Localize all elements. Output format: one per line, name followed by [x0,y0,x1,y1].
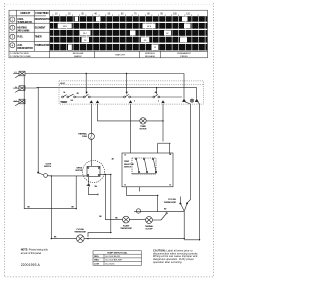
svg-text:18 B: 18 B [63,26,68,28]
svg-text:240 V. MAIN: 240 V. MAIN [17,29,29,32]
svg-text:MED.: MED. [94,260,99,262]
svg-text:SWITCH: SWITCH [124,167,132,169]
svg-text:TIMER: TIMER [35,35,42,38]
svg-text:SWITCH: SWITCH [44,166,52,168]
svg-text:operation after servicing.: operation after servicing. [153,261,183,264]
svg-text:TUMBLER DR.: TUMBLER DR. [17,21,33,24]
svg-text:22001993 A: 22001993 A [21,263,41,267]
svg-text:FUSE: FUSE [82,136,88,138]
svg-text:CIRCUIT: CIRCUIT [20,11,30,15]
svg-text:PRESS: PRESS [180,56,188,58]
svg-text:2 CONTACTS CLOSED: 2 CONTACTS CLOSED [10,55,31,58]
svg-text:11: 11 [124,185,126,187]
svg-text:ELEMENT: ELEMENT [35,26,46,29]
svg-text:REG.: REG. [94,256,99,258]
svg-text:RELEASE: RELEASE [145,55,156,58]
svg-text:FABRIC: FABRIC [74,55,82,58]
svg-text:B-C B-W AIR-WHT: B-C B-W AIR-WHT [106,259,124,262]
svg-text:36 B: 36 B [147,26,152,28]
svg-text:B-C B-W BK-RD: B-C B-W BK-RD [106,256,121,258]
svg-text:24 C: 24 C [83,33,88,35]
svg-text:DOWN MOTOR: DOWN MOTOR [35,18,51,21]
svg-text:THERMOSTAT: THERMOSTAT [74,230,86,233]
svg-text:REGULAR: REGULAR [73,52,84,55]
svg-text:WRINKLE: WRINKLE [145,53,156,55]
svg-text:2: 2 [134,101,135,103]
svg-text:MOTOR: MOTOR [140,129,147,131]
svg-text:2: 2 [158,101,159,103]
svg-text:TUMBLER DR.: TUMBLER DR. [35,44,51,47]
svg-text:CUT-OFF: CUT-OFF [145,228,153,230]
svg-text:PERMANENT: PERMANENT [177,52,191,55]
svg-text:SELECTOR: SELECTOR [124,164,134,166]
svg-text:LOW: LOW [94,263,99,265]
svg-text:DRUM MOTOR: DRUM MOTOR [17,47,33,50]
svg-text:THERMOSTAT: THERMOSTAT [164,201,177,204]
svg-text:TEMP.: TEMP. [124,161,130,163]
svg-text:TEMP SWITCH DIAL: TEMP SWITCH DIAL [107,251,128,254]
svg-text:at rear of this panel.: at rear of this panel. [21,252,42,255]
svg-text:TIME DRY: TIME DRY [115,55,126,57]
svg-text:THERMOSTAT: THERMOSTAT [120,227,132,230]
svg-text:TIMER: TIMER [60,101,67,104]
svg-text:MOTOR: MOTOR [75,170,82,172]
svg-text:12: 12 [169,185,171,187]
svg-text:60 HZ.: 60 HZ. [60,83,65,85]
svg-text:THERMAL: THERMAL [78,133,88,136]
svg-text:FUEL: FUEL [17,35,23,38]
svg-text:B-C B-RD: B-C B-RD [106,263,115,265]
svg-text:1 CONTACTS OPEN: 1 CONTACTS OPEN [10,52,29,55]
svg-text:10: 10 [124,155,126,157]
svg-text:FUNCTION: FUNCTION [35,11,48,15]
